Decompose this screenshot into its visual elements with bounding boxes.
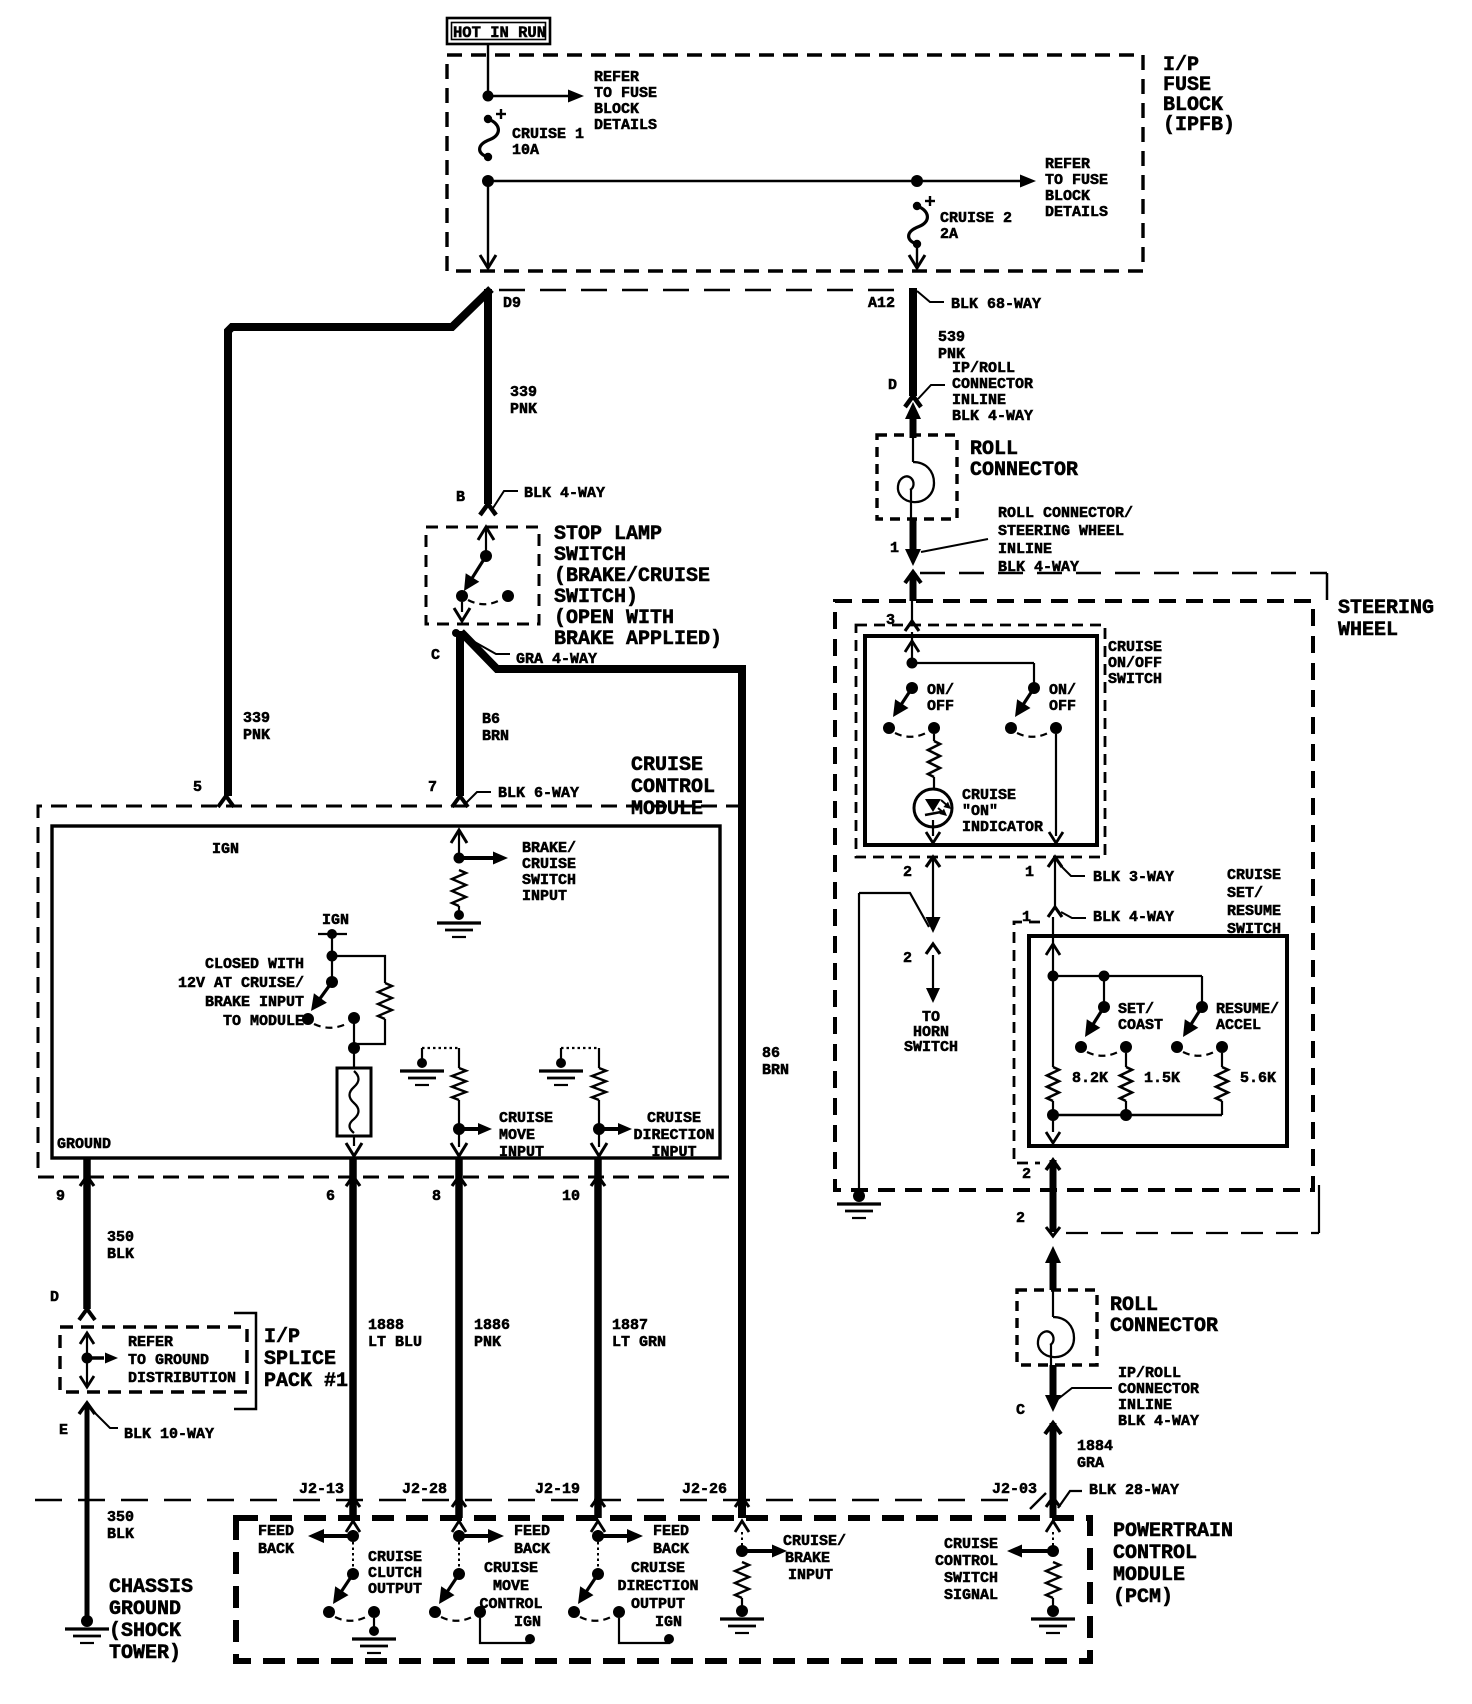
- svg-text:SPLICE: SPLICE: [264, 1348, 336, 1371]
- svg-text:J2-19: J2-19: [535, 1481, 580, 1498]
- svg-text:CRUISE 1: CRUISE 1: [512, 126, 584, 143]
- svg-text:INPUT: INPUT: [522, 888, 567, 905]
- svg-text:CRUISE: CRUISE: [647, 1110, 701, 1127]
- svg-text:2: 2: [1016, 1210, 1025, 1227]
- svg-text:ON/: ON/: [1049, 682, 1076, 699]
- svg-text:CRUISE: CRUISE: [368, 1549, 422, 1566]
- svg-text:CRUISE: CRUISE: [499, 1110, 553, 1127]
- PCM cruise clutch output circuit: [308, 1521, 396, 1653]
- wire below lower roll connector with down arrow: [1050, 1365, 1057, 1398]
- resume/accel switch: [1171, 1001, 1228, 1056]
- steering wheel dashed box: [835, 601, 1313, 1190]
- junction node at CRUISE 2 tap: [911, 175, 923, 187]
- svg-text:INLINE: INLINE: [1118, 1397, 1172, 1414]
- svg-text:6: 6: [326, 1188, 335, 1205]
- wire 350 BLK terminal 9: [83, 1158, 91, 1309]
- svg-text:REFER: REFER: [594, 69, 639, 86]
- svg-text:BACK: BACK: [653, 1541, 689, 1558]
- terminal 1 of on/off switch: [1048, 857, 1062, 867]
- svg-text:7: 7: [428, 779, 437, 796]
- svg-text:LT GRN: LT GRN: [612, 1334, 666, 1351]
- cruise control module outer dashed box: [38, 806, 742, 1177]
- wire 350 BLK to chassis ground: [85, 1406, 90, 1616]
- svg-text:ACCEL: ACCEL: [1216, 1017, 1261, 1034]
- svg-text:SWITCH: SWITCH: [904, 1039, 958, 1056]
- stop lamp switch output wire with arrow: [461, 602, 463, 612]
- wire 339 PNK from D9 down to stop lamp switch: [484, 289, 492, 504]
- svg-text:DISTRIBUTION: DISTRIBUTION: [128, 1370, 236, 1387]
- terminal 2 of on/off switch: [926, 857, 940, 867]
- roll connector clock-spring symbol (lower): [1052, 1290, 1054, 1317]
- svg-text:PNK: PNK: [474, 1334, 501, 1351]
- svg-text:1.5K: 1.5K: [1144, 1070, 1180, 1087]
- bus wire across fuse block: [488, 180, 917, 182]
- svg-text:BRAKE/: BRAKE/: [522, 840, 576, 857]
- svg-text:INPUT: INPUT: [499, 1144, 544, 1161]
- svg-text:339: 339: [510, 384, 537, 401]
- splice bus with arrows: [80, 1333, 118, 1387]
- svg-text:BACK: BACK: [258, 1541, 294, 1558]
- wire from HOT IN RUN into fuse block: [487, 44, 489, 96]
- wire from terminal 1 to set/resume: [1054, 858, 1056, 906]
- svg-text:OUTPUT: OUTPUT: [368, 1581, 422, 1598]
- svg-text:SWITCH: SWITCH: [944, 1570, 998, 1587]
- inline connector boundary at steering wheel: [920, 572, 1327, 575]
- solenoid output wire with arrow: [353, 1136, 355, 1146]
- PCM cruise control switch signal circuit: [1007, 1521, 1075, 1633]
- svg-text:MODULE: MODULE: [631, 798, 703, 821]
- svg-text:BLK 3-WAY: BLK 3-WAY: [1093, 869, 1174, 886]
- svg-text:BLK: BLK: [107, 1526, 134, 1543]
- svg-text:E: E: [59, 1422, 68, 1439]
- svg-text:INLINE: INLINE: [952, 392, 1006, 409]
- svg-text:SWITCH): SWITCH): [554, 586, 638, 609]
- svg-text:(BRAKE/CRUISE: (BRAKE/CRUISE: [554, 565, 710, 588]
- svg-text:5.6K: 5.6K: [1240, 1070, 1276, 1087]
- wire 86 BRN elbow from C to PCM J2-26: [461, 632, 738, 669]
- ground (brake/cruise input): [458, 906, 460, 912]
- wire CRUISE 1 output with arrow: [487, 181, 489, 266]
- svg-text:OUTPUT: OUTPUT: [631, 1596, 685, 1613]
- inline connector boundary between D9 and A12: [499, 289, 909, 292]
- svg-text:8.2K: 8.2K: [1072, 1070, 1108, 1087]
- svg-text:CRUISE: CRUISE: [484, 1560, 538, 1577]
- svg-text:IGN: IGN: [212, 841, 239, 858]
- svg-text:BRAKE APPLIED): BRAKE APPLIED): [554, 628, 722, 651]
- on/off switch left pole: [883, 682, 940, 737]
- svg-text:(PCM): (PCM): [1113, 1586, 1173, 1609]
- svg-text:SWITCH: SWITCH: [1108, 671, 1162, 688]
- svg-text:TO MODULE: TO MODULE: [223, 1013, 304, 1030]
- svg-text:10A: 10A: [512, 142, 539, 159]
- direction arrow up into roll connector: [910, 416, 917, 438]
- wire CRUISE 2 output with arrow: [916, 244, 918, 266]
- svg-text:SWITCH: SWITCH: [522, 872, 576, 889]
- svg-text:CRUISE: CRUISE: [1108, 639, 1162, 656]
- svg-text:86: 86: [762, 1045, 780, 1062]
- svg-text:DETAILS: DETAILS: [1045, 204, 1108, 221]
- svg-text:IGN: IGN: [655, 1614, 682, 1631]
- svg-text:I/P: I/P: [264, 1326, 300, 1349]
- svg-text:STOP LAMP: STOP LAMP: [554, 523, 662, 546]
- svg-text:ROLL: ROLL: [970, 438, 1018, 461]
- svg-text:ROLL CONNECTOR/: ROLL CONNECTOR/: [998, 505, 1133, 522]
- svg-text:CONTROL: CONTROL: [935, 1553, 998, 1570]
- svg-text:SIGNAL: SIGNAL: [944, 1587, 998, 1604]
- wire B6 BRN from C to terminal 7: [456, 631, 464, 796]
- svg-text:FEED: FEED: [653, 1523, 689, 1540]
- svg-text:1886: 1886: [474, 1317, 510, 1334]
- svg-text:CONNECTOR: CONNECTOR: [1118, 1381, 1199, 1398]
- PCM cruise move control circuit: [429, 1521, 535, 1644]
- svg-text:CRUISE: CRUISE: [944, 1536, 998, 1553]
- fuse CRUISE 2 2A: [909, 196, 1012, 248]
- wire from terminal 2 with down arrow: [932, 858, 934, 919]
- svg-text:TO FUSE: TO FUSE: [594, 85, 657, 102]
- wire 339 PNK branch to terminal 5 of module: [228, 289, 491, 796]
- svg-text:CONNECTOR: CONNECTOR: [1110, 1315, 1218, 1338]
- svg-text:RESUME: RESUME: [1227, 903, 1281, 920]
- svg-text:CLOSED WITH: CLOSED WITH: [205, 956, 304, 973]
- svg-text:BLK 68-WAY: BLK 68-WAY: [951, 296, 1041, 313]
- svg-text:BLK 4-WAY: BLK 4-WAY: [524, 485, 605, 502]
- svg-text:350: 350: [107, 1509, 134, 1526]
- svg-text:BLK: BLK: [107, 1246, 134, 1263]
- svg-text:TO GROUND: TO GROUND: [128, 1352, 209, 1369]
- svg-text:INDICATOR: INDICATOR: [962, 819, 1043, 836]
- svg-text:9: 9: [56, 1188, 65, 1205]
- junction node below CRUISE 1: [482, 175, 494, 187]
- svg-text:2A: 2A: [940, 226, 958, 243]
- svg-text:350: 350: [107, 1229, 134, 1246]
- svg-text:1888: 1888: [368, 1317, 404, 1334]
- svg-text:ROLL: ROLL: [1110, 1294, 1158, 1317]
- svg-text:ON/: ON/: [927, 682, 954, 699]
- svg-text:CRUISE: CRUISE: [1227, 867, 1281, 884]
- svg-text:1: 1: [1022, 909, 1031, 926]
- branch to coil resistor: [332, 956, 385, 983]
- I/P splice pack #1 dashed box: [60, 1327, 247, 1392]
- svg-text:CRUISE 2: CRUISE 2: [940, 210, 1012, 227]
- svg-text:HOT IN RUN: HOT IN RUN: [453, 24, 546, 42]
- svg-text:BACK: BACK: [514, 1541, 550, 1558]
- solenoid coil (cruise clutch): [337, 1068, 371, 1136]
- svg-text:CRUISE: CRUISE: [962, 787, 1016, 804]
- svg-text:12V AT CRUISE/: 12V AT CRUISE/: [178, 975, 304, 992]
- svg-text:BRAKE INPUT: BRAKE INPUT: [205, 994, 304, 1011]
- roll connector clock-spring symbol (upper): [912, 435, 914, 462]
- svg-text:INPUT: INPUT: [788, 1567, 833, 1584]
- wire to solenoid: [353, 1018, 355, 1048]
- svg-text:BRN: BRN: [482, 728, 509, 745]
- PCM cruise/brake input circuit: [720, 1521, 787, 1633]
- terminal 2 of set/resume switch: [1046, 1160, 1060, 1170]
- svg-text:TO FUSE: TO FUSE: [1045, 172, 1108, 189]
- feed arrow to fuse block details (left): [488, 95, 568, 97]
- svg-text:IP/ROLL: IP/ROLL: [1118, 1365, 1181, 1382]
- wire into set/resume switch: [1052, 917, 1054, 974]
- resistor 1.5K: [1125, 1053, 1127, 1067]
- svg-text:BLK 4-WAY: BLK 4-WAY: [1093, 909, 1174, 926]
- ground branch inside steering wheel: [859, 893, 929, 927]
- direction arrow up toward steering wheel: [1050, 1260, 1057, 1290]
- ground inside steering wheel: [853, 1190, 865, 1202]
- svg-text:IP/ROLL: IP/ROLL: [952, 360, 1015, 377]
- svg-text:REFER: REFER: [128, 1334, 173, 1351]
- wire 1888 LT BLU terminal 6: [349, 1158, 357, 1518]
- fuse CRUISE 1 10A: [480, 109, 584, 161]
- svg-text:GROUND: GROUND: [57, 1136, 111, 1153]
- svg-text:FEED: FEED: [258, 1523, 294, 1540]
- wire 1884 GRA: [1050, 1423, 1057, 1518]
- svg-text:BLK 4-WAY: BLK 4-WAY: [1118, 1413, 1199, 1430]
- svg-text:RESUME/: RESUME/: [1216, 1001, 1279, 1018]
- svg-text:CONNECTOR: CONNECTOR: [952, 376, 1033, 393]
- svg-text:CONTROL: CONTROL: [631, 776, 715, 799]
- svg-text:ON/OFF: ON/OFF: [1108, 655, 1162, 672]
- svg-text:1884: 1884: [1077, 1438, 1113, 1455]
- svg-text:2: 2: [903, 950, 912, 967]
- svg-text:BLK 28-WAY: BLK 28-WAY: [1089, 1482, 1179, 1499]
- set/resume bottom bus and output: [1053, 1114, 1222, 1117]
- svg-text:J2-28: J2-28: [402, 1481, 447, 1498]
- svg-text:B: B: [456, 489, 465, 506]
- svg-text:TOWER): TOWER): [109, 1642, 181, 1665]
- splice pack bracket: [234, 1313, 256, 1409]
- svg-text:BLK 10-WAY: BLK 10-WAY: [124, 1426, 214, 1443]
- wire 1886 PNK terminal 8: [455, 1158, 463, 1518]
- svg-text:MOVE: MOVE: [493, 1578, 529, 1595]
- set/coast switch: [1075, 976, 1132, 1056]
- wire 2 down through steering wheel boundary: [1050, 1160, 1057, 1232]
- svg-text:D: D: [888, 377, 897, 394]
- svg-text:POWERTRAIN: POWERTRAIN: [1113, 1520, 1233, 1543]
- svg-text:GROUND: GROUND: [109, 1598, 181, 1621]
- svg-text:WHEEL: WHEEL: [1338, 619, 1398, 642]
- svg-text:CONTROL: CONTROL: [1113, 1542, 1197, 1565]
- svg-text:5: 5: [193, 779, 202, 796]
- svg-text:OFF: OFF: [1049, 698, 1076, 715]
- svg-text:CRUISE: CRUISE: [631, 1560, 685, 1577]
- svg-text:CLUTCH: CLUTCH: [368, 1565, 422, 1582]
- svg-text:GRA: GRA: [1077, 1455, 1104, 1472]
- set/resume inline dashed boundary: [1014, 922, 1040, 1163]
- svg-text:D: D: [50, 1289, 59, 1306]
- resistor 8.2K: [1052, 976, 1054, 1067]
- set/resume feed bus: [1048, 971, 1059, 982]
- wire below roll connector with down arrow: [910, 519, 917, 552]
- junction node on CRUISE 1 feed: [483, 91, 494, 102]
- feed arrow to fuse block details (right): [917, 180, 1020, 182]
- chassis ground symbol: [81, 1615, 93, 1627]
- indicator dropping resistor: [933, 734, 935, 741]
- power source label HOT IN RUN: [447, 18, 550, 44]
- cruise set/resume switch body box: [1029, 936, 1287, 1146]
- svg-text:8: 8: [432, 1188, 441, 1205]
- svg-text:SET/: SET/: [1118, 1001, 1154, 1018]
- svg-text:339: 339: [243, 710, 270, 727]
- svg-text:OFF: OFF: [927, 698, 954, 715]
- pull resistor on brake/cruise input: [452, 870, 466, 906]
- stop lamp switch contacts and arm: [456, 527, 514, 604]
- svg-text:SWITCH: SWITCH: [1227, 921, 1281, 938]
- svg-text:BLOCK: BLOCK: [1045, 188, 1090, 205]
- on/off right output wire: [1055, 734, 1057, 836]
- svg-text:PNK: PNK: [510, 401, 537, 418]
- svg-text:BLOCK: BLOCK: [594, 101, 639, 118]
- svg-text:CONNECTOR: CONNECTOR: [970, 459, 1078, 482]
- svg-text:MODULE: MODULE: [1113, 1564, 1185, 1587]
- svg-text:PNK: PNK: [243, 727, 270, 744]
- svg-text:BRAKE: BRAKE: [785, 1550, 830, 1567]
- svg-text:INPUT: INPUT: [651, 1144, 696, 1161]
- PCM cruise direction output circuit: [568, 1521, 674, 1644]
- svg-text:2: 2: [1022, 1166, 1031, 1183]
- svg-text:DIRECTION: DIRECTION: [617, 1578, 698, 1595]
- roll connector dashed box (lower): [1017, 1290, 1097, 1365]
- svg-text:C: C: [1016, 1402, 1025, 1419]
- ign terminal tick: [318, 933, 347, 935]
- svg-text:3: 3: [886, 612, 895, 629]
- svg-text:STEERING WHEEL: STEERING WHEEL: [998, 523, 1124, 540]
- relay switch (closed with 12V at cruise/brake input): [302, 956, 360, 1028]
- LED cruise on indicator: [914, 789, 952, 843]
- svg-text:CRUISE: CRUISE: [522, 856, 576, 873]
- cruise direction input network: [539, 1048, 632, 1156]
- svg-text:CRUISE/: CRUISE/: [783, 1533, 846, 1550]
- svg-text:10: 10: [562, 1188, 580, 1205]
- cruise control module body box: [52, 826, 720, 1158]
- svg-text:LT BLU: LT BLU: [368, 1334, 422, 1351]
- svg-text:SWITCH: SWITCH: [554, 544, 626, 567]
- svg-text:(IPFB): (IPFB): [1163, 114, 1235, 137]
- svg-text:MOVE: MOVE: [499, 1127, 535, 1144]
- svg-text:IGN: IGN: [322, 912, 349, 929]
- resistor 5.6K: [1221, 1053, 1223, 1067]
- cruise move input network: [400, 1048, 492, 1156]
- stop lamp switch dashed box: [426, 527, 539, 624]
- svg-text:DIRECTION: DIRECTION: [633, 1127, 714, 1144]
- brake/cruise switch input node: [451, 830, 508, 865]
- svg-text:(OPEN WITH: (OPEN WITH: [554, 607, 674, 630]
- svg-text:STEERING: STEERING: [1338, 597, 1434, 620]
- on/off switch right pole: [1005, 682, 1062, 737]
- inline connector boundary below steering wheel: [1066, 1232, 1319, 1234]
- wire ign to relay switch: [331, 934, 333, 956]
- node C junction: [452, 629, 460, 637]
- svg-text:(SHOCK: (SHOCK: [109, 1620, 181, 1643]
- wire 539 PNK: [909, 288, 917, 396]
- svg-text:BLK 4-WAY: BLK 4-WAY: [952, 408, 1033, 425]
- svg-text:1: 1: [890, 540, 899, 557]
- svg-text:BLK 6-WAY: BLK 6-WAY: [498, 785, 579, 802]
- svg-text:J2-03: J2-03: [992, 1481, 1037, 1498]
- svg-text:1887: 1887: [612, 1317, 648, 1334]
- svg-text:COAST: COAST: [1118, 1017, 1163, 1034]
- svg-text:FEED: FEED: [514, 1523, 550, 1540]
- svg-text:J2-26: J2-26: [682, 1481, 727, 1498]
- svg-text:IGN: IGN: [514, 1614, 541, 1631]
- svg-text:1: 1: [1025, 864, 1034, 881]
- wire into steering wheel, terminal 3: [910, 573, 917, 601]
- svg-text:CHASSIS: CHASSIS: [109, 1576, 193, 1599]
- svg-text:INLINE: INLINE: [998, 541, 1052, 558]
- label BLK 28-WAY: [1058, 1491, 1082, 1508]
- PCM connector boundary dash line: [35, 1499, 1012, 1502]
- svg-text:REFER: REFER: [1045, 156, 1090, 173]
- svg-text:539: 539: [938, 329, 965, 346]
- svg-text:D9: D9: [503, 295, 521, 312]
- svg-text:"ON": "ON": [962, 803, 998, 820]
- cruise on/off switch body box: [865, 636, 1097, 845]
- wire 1887 LT GRN terminal 10: [594, 1158, 602, 1518]
- svg-text:DETAILS: DETAILS: [594, 117, 657, 134]
- powertrain control module dashed box: [236, 1518, 1090, 1661]
- svg-text:J2-13: J2-13: [299, 1481, 344, 1498]
- roll connector dashed box (upper): [877, 435, 957, 519]
- I/P fuse block (IPFB) dashed box: [447, 55, 1143, 271]
- svg-text:BRN: BRN: [762, 1062, 789, 1079]
- svg-text:C: C: [431, 647, 440, 664]
- svg-text:SET/: SET/: [1227, 885, 1263, 902]
- svg-text:PACK #1: PACK #1: [264, 1370, 348, 1393]
- svg-text:2: 2: [903, 864, 912, 881]
- cruise on/off switch dashed box: [856, 625, 1105, 857]
- svg-text:B6: B6: [482, 711, 500, 728]
- horn circuit connector 2: [926, 944, 940, 954]
- on/off feed junction: [907, 658, 918, 669]
- svg-text:CRUISE: CRUISE: [631, 754, 703, 777]
- svg-text:A12: A12: [868, 295, 895, 312]
- svg-text:CONTROL: CONTROL: [479, 1596, 542, 1613]
